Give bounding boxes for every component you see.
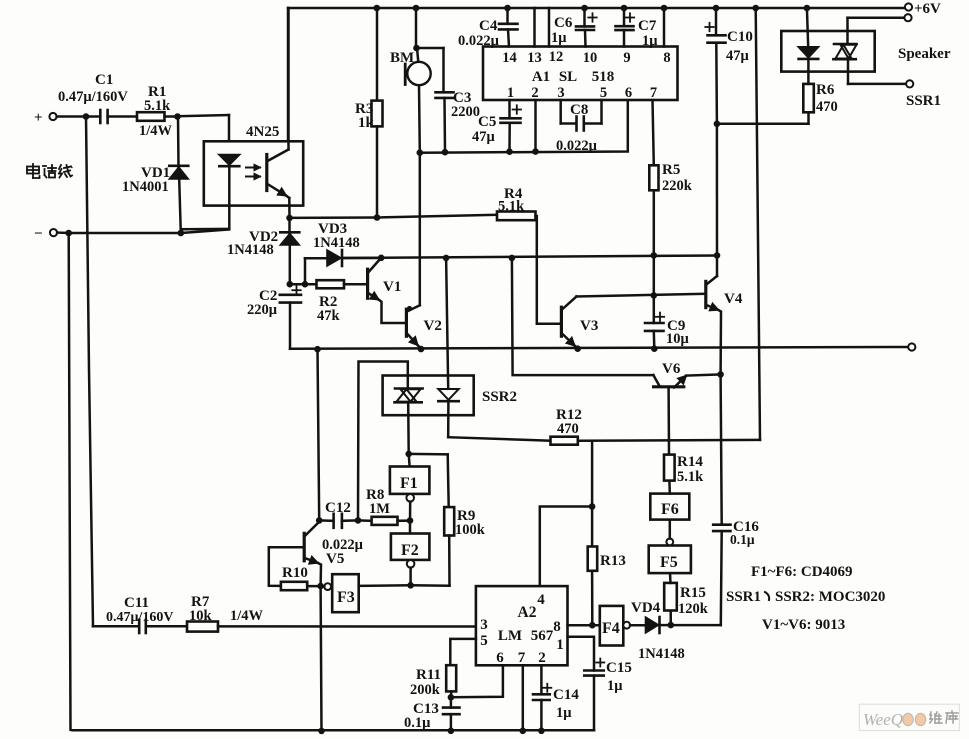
- node V5-emitter: [317, 583, 324, 590]
- wire pin13: [533, 8, 536, 47]
- node C12-left: [316, 517, 323, 524]
- svg-text:2: 2: [531, 85, 538, 101]
- wire F1top-R9: [409, 453, 448, 456]
- wire R13-top: [591, 441, 594, 507]
- svg-text:V4: V4: [724, 291, 743, 307]
- svg-text:1/4W: 1/4W: [230, 608, 264, 624]
- wire - line: [69, 232, 181, 235]
- wire VD4node-C16: [671, 624, 721, 627]
- svg-text:C11: C11: [124, 595, 149, 611]
- diode VD1 1N4001: [177, 117, 180, 168]
- node rail-SSR2feed: [752, 5, 759, 12]
- svg-text:14: 14: [502, 50, 517, 66]
- wire R5-C9node: [653, 255, 656, 295]
- svg-text:V3: V3: [580, 318, 598, 334]
- svg-text:1N4001: 1N4001: [122, 179, 169, 195]
- inverter F5: [649, 546, 691, 574]
- svg-text:12: 12: [549, 49, 564, 65]
- node rail-SSR1: [804, 5, 811, 12]
- svg-text:R5: R5: [662, 162, 680, 178]
- wire pin5-R11: [450, 639, 476, 665]
- node R8-F2: [407, 517, 414, 524]
- svg-text:1N4148: 1N4148: [313, 235, 360, 251]
- node C13-gnd: [448, 728, 455, 735]
- triac in SSR2: [395, 387, 423, 390]
- svg-text:R6: R6: [816, 82, 835, 98]
- diode VD2 1N4148: [288, 218, 291, 234]
- svg-text:470: 470: [557, 421, 579, 437]
- wire 4N25emitter-R4: [290, 215, 498, 218]
- svg-text:47μ: 47μ: [472, 129, 496, 145]
- node C9-bottom: [651, 345, 658, 352]
- capacitor C15: [584, 669, 603, 672]
- wire R6-C10: [717, 123, 809, 126]
- svg-text:VD4: VD4: [631, 600, 661, 616]
- wire pin8-F4: [568, 624, 600, 627]
- svg-text:C14: C14: [553, 687, 579, 703]
- svg-text:+: +: [34, 110, 43, 126]
- capacitor C11: [93, 625, 139, 628]
- svg-text:R10: R10: [282, 565, 308, 581]
- svg-text:5.1k: 5.1k: [498, 199, 525, 215]
- node V2-emitter: [418, 346, 425, 353]
- svg-text:10μ: 10μ: [666, 331, 690, 347]
- capacitor C4: [506, 8, 509, 24]
- capacitor C3: [417, 47, 444, 50]
- svg-text:7: 7: [518, 650, 526, 666]
- inverter F3: [332, 574, 359, 612]
- node V3-emitter: [574, 345, 581, 352]
- transistor V1: [366, 269, 369, 298]
- node R13-pin4: [589, 503, 596, 510]
- resistor R11: [446, 665, 456, 691]
- svg-text:−: −: [34, 226, 43, 242]
- svg-text:10: 10: [583, 50, 598, 66]
- svg-text:5.1k: 5.1k: [677, 469, 704, 485]
- node rail-C4: [504, 5, 511, 12]
- node VD2-C2: [287, 281, 294, 288]
- svg-text:Speaker: Speaker: [898, 46, 951, 62]
- node VD4-R15: [668, 622, 675, 629]
- svg-text:WeeQ: WeeQ: [863, 710, 903, 729]
- wire F3in-R9: [411, 584, 450, 587]
- terminal right-mid: [908, 343, 915, 350]
- svg-text:C12: C12: [325, 500, 351, 516]
- svg-text:R14: R14: [677, 454, 703, 470]
- label telephone-line CJK: [32, 164, 34, 178]
- svg-text:R13: R13: [600, 553, 626, 569]
- svg-text:5.1k: 5.1k: [144, 98, 171, 114]
- node rail-C6: [581, 5, 588, 12]
- transistor V6: [654, 385, 684, 388]
- svg-text:C6: C6: [554, 15, 573, 31]
- svg-text:7: 7: [650, 85, 657, 101]
- resistor R10: [281, 582, 307, 590]
- svg-text:BM: BM: [390, 50, 414, 66]
- triac in SSR1: [834, 43, 857, 46]
- capacitor C9: [653, 295, 656, 323]
- svg-text:47k: 47k: [317, 308, 341, 324]
- node BM-C3: [413, 45, 420, 52]
- svg-text:1μ: 1μ: [551, 30, 567, 46]
- resistor R12: [551, 437, 578, 445]
- svg-text:C10: C10: [727, 29, 753, 45]
- inverter F2: [409, 521, 412, 534]
- svg-text:A1: A1: [532, 69, 550, 85]
- svg-text:4N25: 4N25: [246, 124, 279, 140]
- svg-text:8: 8: [553, 619, 561, 635]
- node neg-VD1: [178, 230, 185, 237]
- resistor R3: [376, 8, 379, 101]
- capacitor C10: [715, 8, 718, 35]
- svg-text:470: 470: [816, 99, 838, 115]
- node V4E-V6E: [717, 371, 724, 378]
- svg-text:1k: 1k: [358, 115, 375, 131]
- inverter F4: [600, 606, 624, 646]
- svg-text:C15: C15: [606, 660, 632, 676]
- diode VD3 1N4148: [304, 258, 307, 284]
- svg-text:567: 567: [531, 628, 554, 644]
- phototransistor in 4N25: [265, 155, 268, 191]
- svg-text:1: 1: [556, 637, 564, 653]
- wire pin2: [534, 100, 537, 152]
- resistor R8: [358, 519, 372, 522]
- svg-text:200k: 200k: [410, 682, 441, 698]
- svg-text:1M: 1M: [369, 501, 390, 517]
- wire VD2-R2: [290, 283, 317, 286]
- transistor V5: [303, 533, 306, 561]
- transistor V4: [704, 281, 707, 307]
- terminal SSR1-bottom: [906, 80, 913, 87]
- wire SSR2-left feed: [358, 362, 408, 521]
- svg-text:V6: V6: [662, 361, 681, 377]
- opto-coupler 4N25 box: [204, 141, 303, 205]
- capacitor C14: [540, 665, 543, 694]
- svg-text:1μ: 1μ: [607, 678, 623, 694]
- node C12-right: [355, 517, 362, 524]
- node V6feed-rail: [509, 255, 516, 262]
- svg-text:SL: SL: [559, 69, 577, 85]
- wire R11-pin6: [451, 665, 503, 697]
- svg-text:6: 6: [496, 650, 504, 666]
- svg-text:1μ: 1μ: [556, 705, 572, 721]
- node F2-out: [407, 582, 414, 589]
- node R3-bottom: [374, 214, 381, 221]
- wire audio ground: [420, 100, 628, 153]
- wire pin12: [548, 8, 551, 47]
- svg-text:SSR2: SSR2: [482, 389, 517, 405]
- svg-text:47μ: 47μ: [726, 48, 750, 64]
- node V5line-top: [314, 346, 321, 353]
- wire V2C-BM: [419, 153, 422, 306]
- svg-text:100k: 100k: [455, 522, 486, 538]
- terminal +6V: [905, 3, 912, 10]
- wire left ground rail: [69, 233, 594, 730]
- wire pin7-gnd: [522, 665, 525, 731]
- LED in SSR2: [446, 258, 448, 389]
- wire pin8: [663, 8, 666, 47]
- wire V5E-gnd: [319, 586, 322, 731]
- svg-text:F4: F4: [602, 620, 620, 637]
- resistor R13: [591, 507, 594, 547]
- transistor V3: [560, 307, 563, 336]
- node SSR2feed-rail: [443, 255, 450, 262]
- svg-text:C5: C5: [478, 114, 496, 130]
- svg-text:V1: V1: [383, 279, 401, 295]
- node rail-pin8: [661, 5, 668, 12]
- node V1C-rail: [378, 254, 385, 261]
- opto-triac SSR2 box: [383, 376, 474, 416]
- node C5-gnd: [506, 148, 513, 155]
- node neg-leftrail: [65, 230, 72, 237]
- LED in SSR1: [807, 8, 808, 47]
- svg-text:F3: F3: [337, 589, 355, 606]
- node C10-R6: [714, 121, 721, 128]
- wire main mid rail: [344, 256, 718, 259]
- node R11-C13: [448, 694, 455, 701]
- inverter F6: [669, 520, 672, 539]
- node R1-VD1: [174, 113, 181, 120]
- svg-text:1μ: 1μ: [642, 33, 658, 49]
- light arrows in 4N25: [246, 167, 260, 169]
- wire V5C-C12: [318, 349, 320, 520]
- svg-text:13: 13: [527, 50, 542, 66]
- node V5-gndrail: [318, 728, 325, 735]
- wire pin1-C15: [568, 637, 595, 671]
- capacitor C12: [319, 519, 333, 522]
- wire V5 base loop: [269, 547, 304, 586]
- wire C11 drop: [86, 117, 93, 627]
- terminal speaker-top: [904, 14, 911, 21]
- resistor R4: [497, 212, 536, 221]
- svg-text:SSR2: MOC3020: SSR2: MOC3020: [775, 589, 885, 605]
- resistor R6: [803, 84, 814, 112]
- node BM-gnd: [417, 149, 424, 156]
- node rail-C10: [713, 5, 720, 12]
- capacitor C1: [86, 115, 100, 118]
- capacitor C5: [508, 100, 511, 118]
- node rail-R3: [374, 5, 381, 12]
- svg-text:A2: A2: [518, 604, 537, 621]
- node C1-in: [83, 113, 90, 120]
- svg-text:1N4148: 1N4148: [227, 242, 274, 258]
- svg-text:2200: 2200: [451, 104, 480, 120]
- transistor V2: [405, 309, 408, 336]
- node 4N25-emitter: [286, 215, 293, 222]
- microphone BM: [415, 8, 418, 48]
- svg-text:5: 5: [600, 85, 607, 101]
- op-amp U A1 SL518 box: [483, 47, 678, 101]
- svg-text:1/4W: 1/4W: [139, 123, 173, 139]
- wire BM-bottom: [418, 85, 421, 152]
- node pin8-R13: [589, 622, 596, 629]
- capacitor C7: [623, 8, 626, 26]
- svg-text:LM: LM: [498, 628, 522, 644]
- node R5-rail: [651, 252, 658, 259]
- wire R1-4N25: [165, 115, 178, 118]
- wire emitter bus: [290, 347, 908, 349]
- svg-text:C1: C1: [95, 72, 113, 88]
- capacitor C8: [559, 100, 562, 124]
- svg-text:C8: C8: [570, 102, 588, 118]
- svg-text:V5: V5: [326, 551, 344, 567]
- capacitor C16: [721, 374, 722, 524]
- resistor R2: [317, 280, 345, 288]
- svg-text:1: 1: [507, 85, 514, 101]
- watermark CJK weiku: [903, 713, 913, 725]
- LED in 4N25: [219, 155, 239, 165]
- svg-text:+6V: +6V: [914, 1, 941, 17]
- inverter F1: [407, 454, 410, 467]
- svg-text:120k: 120k: [678, 601, 709, 617]
- node midrail-right: [714, 252, 721, 259]
- opto-triac SSR1 box: [781, 31, 874, 72]
- wire C10-midrail: [716, 124, 719, 256]
- wire +6V rail: [288, 7, 905, 10]
- svg-text:0.47μ/160V: 0.47μ/160V: [58, 89, 128, 105]
- svg-text:SSR1: SSR1: [726, 589, 761, 605]
- svg-text:220k: 220k: [662, 178, 693, 194]
- svg-text:1N4148: 1N4148: [638, 646, 685, 662]
- svg-text:0.1μ: 0.1μ: [404, 715, 431, 731]
- svg-text:V1~V6: 9013: V1~V6: 9013: [762, 617, 845, 633]
- capacitor C13: [450, 697, 453, 707]
- svg-text:0.1μ: 0.1μ: [730, 532, 755, 547]
- capacitor C6: [583, 8, 586, 26]
- svg-text:SSR1: SSR1: [906, 93, 941, 109]
- resistor R9: [444, 507, 454, 535]
- svg-text:F5: F5: [660, 554, 678, 571]
- svg-text:0.022μ: 0.022μ: [556, 138, 598, 154]
- wire V3C-V4B: [576, 294, 705, 297]
- node C3-gnd: [442, 149, 449, 156]
- node rail-BM: [413, 5, 420, 12]
- svg-text:3: 3: [557, 85, 564, 101]
- svg-text:C4: C4: [479, 18, 498, 34]
- node C9-top: [651, 292, 658, 299]
- resistor R5: [653, 100, 654, 165]
- resistor R1: [137, 112, 165, 121]
- diode VD4 1N4148: [646, 617, 659, 633]
- capacitor C2: [292, 289, 300, 291]
- watermark box: [859, 704, 959, 730]
- svg-text:9: 9: [623, 50, 630, 66]
- node SSR2-F1: [405, 451, 412, 458]
- svg-text:0.022μ: 0.022μ: [458, 33, 500, 49]
- svg-text:R15: R15: [680, 585, 706, 601]
- svg-text:6: 6: [625, 85, 632, 101]
- svg-text:220μ: 220μ: [247, 302, 278, 318]
- wire pin4 link: [540, 507, 592, 587]
- node pin2-gnd: [532, 148, 539, 155]
- svg-text:F1: F1: [400, 475, 418, 492]
- svg-text:4: 4: [537, 592, 545, 608]
- resistor R7: [187, 622, 218, 632]
- svg-text:V2: V2: [424, 318, 442, 334]
- wire R12-plus6V: [578, 439, 760, 442]
- svg-text:R11: R11: [416, 667, 441, 683]
- node rail-C7: [621, 5, 628, 12]
- svg-text:F1~F6: CD4069: F1~F6: CD4069: [751, 564, 853, 580]
- svg-text:5: 5: [480, 633, 488, 649]
- svg-text:F6: F6: [661, 501, 679, 518]
- svg-text:F2: F2: [401, 542, 419, 559]
- wire V6 collector feed: [512, 258, 654, 375]
- wire R4-V3base: [536, 216, 562, 324]
- svg-text:8: 8: [663, 50, 670, 66]
- svg-text:C7: C7: [638, 18, 657, 34]
- node R2-left: [302, 281, 309, 288]
- svg-text:10k: 10k: [189, 608, 213, 624]
- op-amp U A2 LM567 box: [476, 586, 568, 665]
- svg-text:2: 2: [538, 650, 546, 666]
- resistor R15: [669, 611, 672, 626]
- svg-text:518: 518: [592, 69, 615, 85]
- svg-text:3: 3: [480, 617, 488, 633]
- resistor R14: [668, 481, 671, 494]
- wire SSR2-R12: [447, 436, 450, 437]
- svg-text:0.47μ/160V: 0.47μ/160V: [106, 610, 173, 625]
